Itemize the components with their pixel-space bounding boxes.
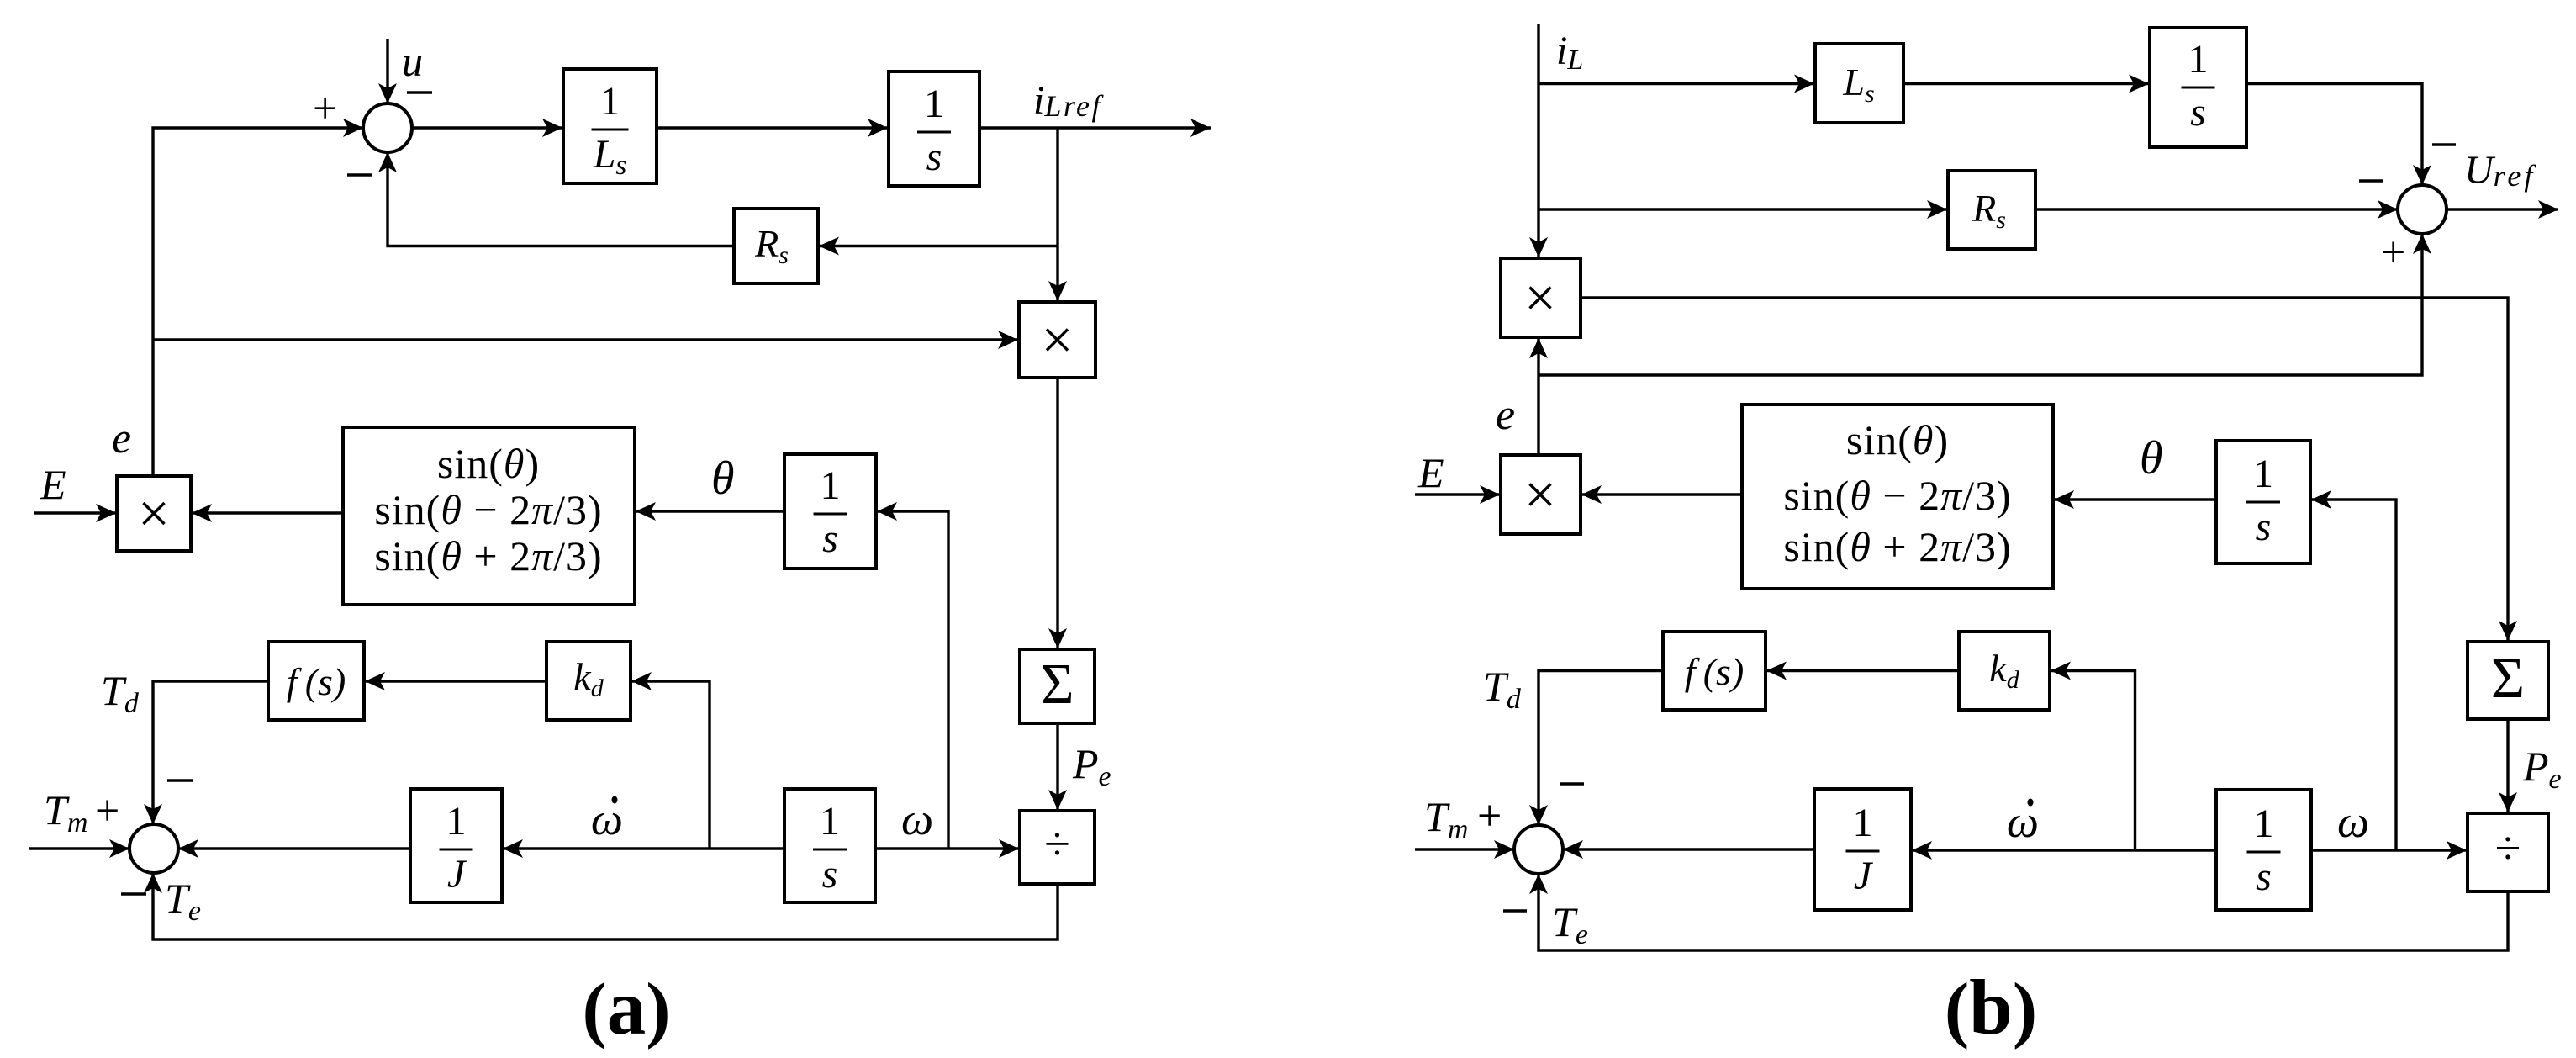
wire Te feedback loop b bbox=[1539, 874, 2508, 950]
svg-text:E: E bbox=[1417, 449, 1444, 496]
minus at Te input S2a bbox=[121, 892, 146, 896]
svg-text:u: u bbox=[402, 38, 423, 85]
block 1/J b bbox=[1814, 789, 1911, 910]
svg-text:ω: ω bbox=[591, 794, 623, 844]
svg-text:s: s bbox=[822, 516, 838, 561]
block integrator 1/s top b bbox=[2150, 28, 2246, 147]
svg-text:ω: ω bbox=[901, 794, 933, 844]
block multiplier X1a bbox=[1019, 302, 1095, 378]
wire Ls to 1/s bbox=[1903, 82, 2149, 85]
wire 1/s to S1b minus top bbox=[2246, 84, 2422, 186]
svg-text:Σ: Σ bbox=[1040, 652, 1074, 716]
svg-text:sin(θ − 2π/3): sin(θ − 2π/3) bbox=[1783, 472, 2011, 519]
wire 1/s to 1/J omega-dot b bbox=[1912, 849, 2216, 851]
block integrator 1/s top a bbox=[889, 71, 979, 186]
svg-text:f (s): f (s) bbox=[1685, 650, 1745, 693]
wire f(s) to Td to S2b minus bbox=[1539, 671, 1663, 826]
summing junction S1a bbox=[363, 103, 412, 152]
wire 1/s to i_Lref output bbox=[979, 126, 1211, 129]
svg-text:+: + bbox=[313, 85, 337, 133]
summing junction S1b bbox=[2398, 185, 2447, 234]
block Sigma b bbox=[2468, 642, 2548, 719]
block 1/J a bbox=[410, 789, 502, 902]
wire kd to f(s) bbox=[365, 680, 546, 682]
wire S1a to 1/Ls bbox=[411, 126, 562, 129]
svg-text:ω: ω bbox=[2007, 796, 2039, 847]
svg-text:1: 1 bbox=[600, 79, 620, 124]
minus sign at S1a lower input bbox=[347, 173, 372, 177]
svg-text:÷: ÷ bbox=[1044, 818, 1070, 870]
svg-text:+: + bbox=[1477, 792, 1502, 840]
svg-text:s: s bbox=[2190, 90, 2206, 135]
block multiplier X2a (E x sin) bbox=[117, 476, 191, 551]
wire X1b product to Sigma b bbox=[1581, 298, 2508, 641]
wire S1b to U_ref output bbox=[2446, 208, 2558, 210]
svg-text:+: + bbox=[95, 787, 119, 835]
block divider b bbox=[2468, 813, 2548, 891]
wire branch to Rs bbox=[819, 245, 1058, 247]
minus above S1b bbox=[2432, 143, 2456, 146]
block sin matrix b bbox=[1742, 405, 2053, 589]
svg-text:θ: θ bbox=[2140, 432, 2163, 484]
block Rs a bbox=[734, 209, 818, 283]
svg-text:1: 1 bbox=[2253, 452, 2273, 496]
wire i_L branch to Rs bbox=[1539, 208, 1947, 210]
block Ls b bbox=[1815, 44, 1903, 123]
wire kd to f(s) b bbox=[1766, 669, 1959, 672]
wire Rs to S1b minus left bbox=[2035, 208, 2398, 210]
wire f(s) to Td to S2a minus bbox=[153, 681, 268, 824]
minus at Td input S2a bbox=[167, 779, 193, 782]
block Rs b bbox=[1948, 171, 2035, 249]
wire Sigma to divider bbox=[1056, 723, 1058, 810]
svg-text:1: 1 bbox=[2254, 801, 2274, 846]
svg-text:s: s bbox=[2256, 505, 2272, 549]
wire theta 1/s to sin block bbox=[636, 510, 784, 512]
wire E input arrow bbox=[34, 511, 116, 514]
block kd b bbox=[1959, 632, 2050, 710]
block integrator 1/s omega a bbox=[784, 789, 875, 902]
block f(s) a bbox=[268, 642, 364, 720]
svg-text:÷: ÷ bbox=[2495, 823, 2521, 875]
wire 1/s omega to divider bbox=[875, 847, 1019, 849]
svg-text:J: J bbox=[447, 852, 467, 897]
svg-text:f (s): f (s) bbox=[287, 660, 346, 703]
svg-text:s: s bbox=[822, 852, 838, 897]
svg-text:sin(θ + 2π/3): sin(θ + 2π/3) bbox=[1783, 523, 2011, 570]
svg-text:J: J bbox=[1854, 854, 1874, 898]
svg-text:s: s bbox=[2256, 854, 2272, 899]
svg-text:s: s bbox=[926, 135, 942, 179]
minus at Te input S2b bbox=[1503, 909, 1527, 913]
wire i_Lref branch down to multiplier X1a bbox=[1056, 128, 1058, 301]
wire Tm input to S2a bbox=[29, 847, 129, 849]
wire Tm input to S2b bbox=[1415, 848, 1514, 850]
wire omega branch up to theta 1/s b bbox=[2311, 500, 2396, 850]
wire u input to summing junction S1a bbox=[386, 39, 388, 103]
wire 1/s to 1/J omega-dot bbox=[503, 847, 784, 849]
wire e branch to S1b plus bbox=[1539, 234, 2422, 375]
wire 1/J to S2b bbox=[1563, 848, 1814, 850]
svg-text:1: 1 bbox=[820, 799, 840, 844]
wire Rs to S1a minus input bbox=[388, 152, 734, 246]
wire omega branch up to theta 1/s bbox=[877, 511, 948, 849]
summing junction S2b bbox=[1514, 825, 1563, 874]
wire sin block to X2b bbox=[1581, 493, 1742, 495]
svg-text:θ: θ bbox=[711, 452, 735, 505]
block 1/Ls bbox=[563, 69, 657, 183]
wire e line to multiplier X1a bbox=[153, 338, 1018, 341]
svg-text:sin(θ): sin(θ) bbox=[437, 440, 540, 487]
wire 1/Ls to 1/s bbox=[657, 126, 888, 129]
svg-text:sin(θ − 2π/3): sin(θ − 2π/3) bbox=[374, 486, 602, 533]
svg-text:e: e bbox=[112, 415, 131, 463]
wire e line up to X1b bbox=[1537, 338, 1539, 455]
minus left of S1b bbox=[2359, 179, 2383, 183]
svg-text:1: 1 bbox=[446, 799, 467, 844]
block integrator 1/s theta a bbox=[784, 454, 876, 569]
wire i_L branch to Ls bbox=[1539, 82, 1814, 85]
svg-text:1: 1 bbox=[924, 82, 944, 126]
svg-text:Σ: Σ bbox=[2491, 646, 2525, 710]
svg-text:sin(θ): sin(θ) bbox=[1846, 416, 1949, 463]
wire i_L input down to multiplier X1b bbox=[1537, 24, 1539, 257]
wire 1/J to S2a bbox=[178, 847, 410, 849]
wire sin block to X2a bbox=[192, 511, 343, 514]
block multiplier X2b (E x sin) bbox=[1501, 455, 1581, 534]
svg-text:1: 1 bbox=[821, 463, 841, 508]
svg-text:+: + bbox=[2381, 229, 2405, 277]
block integrator 1/s omega b bbox=[2216, 790, 2311, 910]
block sin matrix a bbox=[343, 427, 635, 605]
block integrator 1/s theta b bbox=[2216, 441, 2310, 563]
svg-text:sin(θ + 2π/3): sin(θ + 2π/3) bbox=[374, 532, 602, 579]
block divider a bbox=[1020, 811, 1095, 884]
wire 1/s omega to divider b bbox=[2311, 849, 2467, 851]
wire Sigma to divider b bbox=[2506, 719, 2509, 812]
svg-text:e: e bbox=[1496, 391, 1515, 439]
svg-text:E: E bbox=[40, 461, 66, 508]
svg-text:(a): (a) bbox=[582, 965, 670, 1051]
svg-text:1: 1 bbox=[2188, 37, 2209, 82]
wire X1a to Sigma bbox=[1056, 378, 1058, 648]
wire Te feedback loop a bbox=[153, 873, 1058, 939]
block multiplier X1b bbox=[1501, 258, 1581, 337]
minus at Td input S2b bbox=[1560, 782, 1584, 786]
summing junction S2a bbox=[129, 824, 178, 873]
wire omega-dot branch up to kd b bbox=[2051, 671, 2135, 851]
wire S1a plus input from e line bbox=[153, 128, 363, 476]
wire theta 1/s to sin block b bbox=[2054, 498, 2216, 500]
svg-text:(b): (b) bbox=[1945, 965, 2037, 1051]
block f(s) b bbox=[1663, 632, 1766, 710]
svg-text:ω: ω bbox=[2337, 796, 2369, 847]
minus sign at u input bbox=[407, 91, 432, 94]
svg-text:1: 1 bbox=[1853, 801, 1873, 845]
wire omega-dot branch up to kd bbox=[631, 681, 710, 849]
block Sigma a bbox=[1020, 649, 1095, 723]
wire E input arrow b bbox=[1415, 493, 1500, 495]
block kd a bbox=[546, 642, 631, 720]
